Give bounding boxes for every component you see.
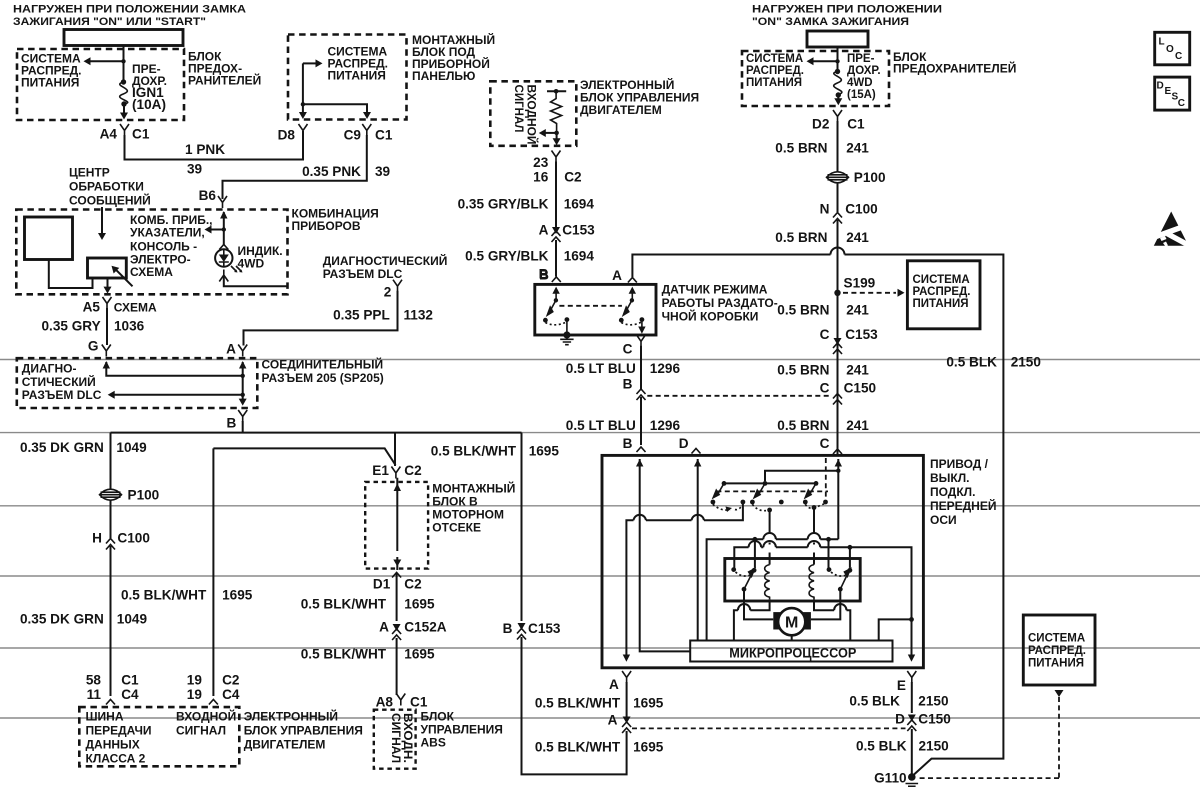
svg-text:C1: C1 (132, 127, 150, 142)
fuse 4WD 15A (835, 69, 840, 74)
svg-text:B: B (539, 268, 549, 283)
selector blade 1 (718, 483, 725, 494)
diagonal arrow into scheme rect (116, 270, 133, 287)
connector A (SP205) (238, 345, 247, 357)
svg-text:ПИТАНИЯ: ПИТАНИЯ (746, 77, 802, 89)
svg-text:P100: P100 (128, 488, 160, 503)
svg-text:C4: C4 (222, 687, 240, 702)
svg-text:СОЕДИНИТЕЛЬНЫЙ: СОЕДИНИТЕЛЬНЫЙ (262, 357, 384, 372)
wire 0.5 BRN 241 down to S199 (837, 220, 839, 455)
svg-text:16: 16 (533, 170, 549, 185)
connector A8 C1 (396, 694, 405, 706)
svg-text:B: B (503, 621, 513, 636)
svg-text:C: C (820, 327, 830, 342)
svg-text:ДВИГАТЕЛЕМ: ДВИГАТЕЛЕМ (580, 103, 662, 117)
svg-text:ПРИБОРОВ: ПРИБОРОВ (292, 219, 361, 233)
pin D of actuator (692, 449, 701, 454)
wire to pin C with arrow (641, 320, 643, 327)
wire display to scheme block (49, 260, 93, 289)
connector A C152A (393, 624, 401, 631)
svg-text:C4: C4 (121, 687, 139, 702)
svg-text:МОТОРНОМ: МОТОРНОМ (432, 508, 504, 522)
wire 0.5 BLK/WHT 1695 to ground loop (522, 637, 627, 774)
svg-text:"ON" ЗАМКА ЗАЖИГАНИЯ: "ON" ЗАМКА ЗАЖИГАНИЯ (752, 16, 909, 28)
selector blade 3 (810, 483, 817, 494)
svg-text:2150: 2150 (919, 739, 949, 754)
connector D1 C2 (392, 573, 401, 578)
svg-text:B6: B6 (199, 188, 217, 203)
svg-text:0.5 BLK/WHT: 0.5 BLK/WHT (121, 588, 207, 603)
connector A (in-line) (623, 717, 631, 724)
svg-text:0.35 PPL: 0.35 PPL (333, 308, 390, 323)
svg-text:D2: D2 (812, 117, 830, 132)
svg-text:A8: A8 (376, 695, 394, 710)
right coil (809, 565, 814, 600)
svg-text:0.5 BRN: 0.5 BRN (777, 303, 829, 318)
svg-text:E: E (1165, 86, 1172, 97)
svg-text:0.5 BLK/WHT: 0.5 BLK/WHT (535, 696, 621, 711)
svg-text:ABS: ABS (421, 736, 446, 750)
svg-text:C153: C153 (528, 621, 561, 636)
svg-text:1 PNK: 1 PNK (185, 142, 225, 157)
svg-text:ДИАГНО-: ДИАГНО- (22, 362, 77, 376)
svg-text:G110: G110 (874, 771, 907, 786)
junction node (121, 59, 125, 63)
connector B C150 (637, 389, 646, 400)
svg-text:ПИТАНИЯ: ПИТАНИЯ (913, 298, 969, 310)
front axle actuator box (602, 455, 923, 667)
svg-text:C150: C150 (918, 712, 951, 727)
relay left switch (731, 567, 736, 572)
svg-text:B: B (226, 416, 236, 431)
svg-text:МОНТАЖНЫЙ: МОНТАЖНЫЙ (432, 481, 515, 496)
svg-text:D: D (895, 712, 905, 727)
svg-text:1296: 1296 (650, 361, 681, 376)
taps from line1 to relay contacts (755, 539, 829, 568)
svg-text:A: A (226, 342, 236, 357)
wire G into DLC (103, 361, 110, 369)
svg-text:РАБОТЫ РАЗДАТО-: РАБОТЫ РАЗДАТО- (662, 296, 778, 310)
svg-text:1694: 1694 (564, 197, 595, 212)
LOC reference box (1155, 32, 1190, 65)
svg-text:ВХОДН.: ВХОДН. (401, 713, 413, 763)
svg-text:11: 11 (87, 687, 102, 702)
svg-text:ДВИГАТЕЛЕМ: ДВИГАТЕЛЕМ (244, 738, 326, 752)
arrow from message center into cluster (101, 207, 103, 233)
svg-text:СИСТЕМА: СИСТЕМА (746, 53, 803, 65)
svg-text:1049: 1049 (117, 612, 148, 627)
wire 0.5 BLK/WHT 1695 (396, 638, 398, 695)
display rectangle (25, 217, 73, 260)
svg-text:0.5 BLK: 0.5 BLK (849, 694, 900, 709)
arrow to gauges (210, 229, 224, 231)
wire A4 to D8, 1 PNK 39 (125, 131, 304, 160)
wire B6 into cluster (220, 211, 227, 219)
svg-text:ВЫКЛ.: ВЫКЛ. (930, 471, 970, 485)
pin B entry arrow (555, 292, 557, 300)
selector common wire C to pivot 2 (765, 471, 838, 481)
svg-text:A: A (539, 223, 549, 238)
svg-text:58: 58 (86, 673, 102, 688)
svg-text:1296: 1296 (650, 418, 681, 433)
svg-text:C: C (820, 436, 830, 451)
power distribution system box (right) (907, 261, 980, 329)
microprocessor box (690, 641, 892, 662)
svg-text:НАГРУЖЕН ПРИ ПОЛОЖЕНИИ ЗАМКА: НАГРУЖЕН ПРИ ПОЛОЖЕНИИ ЗАМКА (13, 4, 246, 16)
DESC reference box (1155, 77, 1190, 110)
connector E1 C2 (391, 467, 400, 479)
svg-text:РАЗЪЕМ 205 (SP205): РАЗЪЕМ 205 (SP205) (262, 371, 384, 385)
contact arcs dotted (713, 504, 730, 510)
svg-text:C: C (1175, 51, 1182, 62)
wire LED to cluster edge (224, 277, 288, 287)
svg-text:1695: 1695 (404, 647, 435, 662)
svg-text:ДАТЧИК РЕЖИМА: ДАТЧИК РЕЖИМА (662, 283, 768, 297)
line1: C to microprocessor (707, 539, 839, 640)
svg-text:C: C (1178, 98, 1185, 109)
svg-text:C2: C2 (404, 577, 422, 592)
wire 0.5 BLK/WHT 1695 (396, 573, 398, 621)
svg-text:КЛАССА 2: КЛАССА 2 (86, 752, 146, 766)
svg-text:0.5 BRN: 0.5 BRN (777, 363, 829, 378)
svg-text:ВХОДНОЙ: ВХОДНОЙ (176, 709, 236, 724)
connector pin 2 (393, 280, 402, 292)
wire from arc3 mid down to right coil (812, 505, 817, 510)
svg-text:ПРЕ-: ПРЕ- (847, 53, 875, 65)
svg-text:241: 241 (846, 363, 869, 378)
svg-text:D: D (1157, 81, 1164, 92)
svg-text:0.5 BLK/WHT: 0.5 BLK/WHT (431, 443, 517, 458)
svg-text:C1: C1 (847, 117, 865, 132)
svg-text:ШИНА: ШИНА (86, 710, 124, 724)
svg-text:0.5 GRY/BLK: 0.5 GRY/BLK (465, 248, 549, 263)
svg-text:B: B (623, 436, 633, 451)
svg-text:ЭЛЕКТРОННЫЙ: ЭЛЕКТРОННЫЙ (244, 709, 338, 724)
fuse IGN1 10A (121, 79, 126, 84)
svg-text:ЗАЖИГАНИЯ "ON" ИЛИ "START": ЗАЖИГАНИЯ "ON" ИЛИ "START" (13, 16, 206, 28)
svg-text:G: G (88, 339, 99, 354)
svg-text:P100: P100 (854, 170, 886, 185)
svg-text:ПРИВОД /: ПРИВОД / (930, 457, 989, 471)
svg-text:1036: 1036 (114, 319, 145, 334)
svg-text:1695: 1695 (633, 696, 664, 711)
wire 0.5 LT BLU 1296 (lower) (640, 397, 642, 445)
svg-text:O: O (1166, 44, 1174, 55)
svg-text:РАЗЪЕМ DLC: РАЗЪЕМ DLC (323, 267, 403, 281)
connector E (below actuator) (907, 671, 916, 683)
pin B of transfer case switch (552, 277, 561, 282)
svg-text:РАСПРЕД.: РАСПРЕД. (913, 286, 971, 298)
svg-text:0.5 BRN: 0.5 BRN (775, 230, 827, 245)
svg-text:СХЕМА: СХЕМА (130, 265, 173, 279)
svg-text:C: C (623, 342, 633, 357)
grid rules (0, 360, 1200, 719)
wire 0.35 GRY/BLK 1694 (555, 162, 557, 229)
svg-text:241: 241 (846, 418, 869, 433)
dashed ground reference to G110 (1055, 690, 1064, 697)
LED arrows (231, 266, 241, 271)
svg-text:A: A (609, 677, 619, 692)
svg-text:C153: C153 (562, 223, 595, 238)
underdash junction block dashed box (288, 35, 407, 120)
svg-text:0.5 BRN: 0.5 BRN (777, 418, 829, 433)
svg-text:C2: C2 (404, 463, 422, 478)
svg-text:1132: 1132 (404, 308, 434, 323)
switch blade B (554, 298, 558, 302)
arrow to DLC (113, 394, 243, 396)
4WD indicator LED (219, 245, 228, 250)
relay blades to motor brushes (744, 589, 773, 619)
svg-text:241: 241 (846, 230, 869, 245)
wire 0.35 PPL 1132 (244, 291, 398, 346)
arrow to power distribution (right) (812, 60, 838, 62)
wire C1 to B6, 0.35 PNK 39 (223, 135, 367, 199)
pin B wire inside to microprocessor (640, 459, 691, 651)
svg-text:0.5 BLK: 0.5 BLK (856, 739, 907, 754)
selector pivot rail (pivot1 - pivot3) (724, 482, 816, 484)
svg-text:A4: A4 (100, 127, 118, 142)
dashed vertical from box top to right contact (825, 458, 827, 499)
svg-text:ДИАГНОСТИЧЕСКИЙ: ДИАГНОСТИЧЕСКИЙ (323, 253, 448, 268)
svg-text:C152A: C152A (404, 620, 446, 635)
svg-text:C100: C100 (117, 531, 149, 546)
svg-text:4WD: 4WD (847, 77, 873, 89)
wire 0.5 BLK 2150 to G110 (911, 729, 913, 775)
svg-text:241: 241 (846, 141, 869, 156)
dashed link to C150 (632, 727, 906, 729)
wire B to bus, y=432.6 (111, 421, 522, 433)
svg-text:19: 19 (187, 687, 203, 702)
wire 0.5 BRN 241 to P100 (837, 121, 839, 172)
svg-text:УКАЗАТЕЛИ,: УКАЗАТЕЛИ, (130, 226, 205, 240)
svg-text:0.5 BLK: 0.5 BLK (946, 355, 997, 370)
svg-text:23: 23 (533, 155, 549, 170)
engine ECM dashed box (top) (490, 81, 576, 146)
svg-text:0.5 LT BLU: 0.5 LT BLU (566, 361, 636, 376)
connector A4 C1 (120, 124, 129, 136)
svg-text:19: 19 (187, 673, 203, 688)
svg-text:C100: C100 (845, 202, 878, 217)
label: input signal (rotated) (512, 85, 540, 145)
wire A through DLC box (239, 361, 246, 369)
svg-text:(10А): (10А) (132, 97, 166, 112)
svg-text:СООБЩЕНИЙ: СООБЩЕНИЙ (69, 193, 151, 208)
svg-text:E: E (897, 678, 906, 693)
wire from arc2 mid down to left coil (767, 508, 772, 513)
svg-text:СИГНАЛ: СИГНАЛ (389, 713, 401, 763)
svg-text:1695: 1695 (633, 740, 664, 755)
transfer case mode sensor box (535, 284, 656, 335)
connector C (637, 335, 646, 347)
svg-text:ОСИ: ОСИ (930, 513, 957, 527)
wire 0.5 BLK/WHT 1695 (626, 682, 628, 717)
svg-text:C2: C2 (222, 673, 240, 688)
svg-text:(15А): (15А) (847, 89, 876, 101)
svg-text:C1: C1 (410, 695, 428, 710)
wire 0.35 DK GRN 1049 (lower) (110, 546, 112, 696)
svg-text:39: 39 (375, 164, 391, 179)
wire E1 through junction block (394, 484, 401, 492)
svg-text:2150: 2150 (918, 694, 948, 709)
svg-text:2150: 2150 (1011, 355, 1041, 370)
svg-text:БЛОК УПРАВЛЕНИЯ: БЛОК УПРАВЛЕНИЯ (244, 724, 363, 738)
connector D C150 (908, 715, 916, 722)
switch coupling dashed (559, 305, 622, 307)
svg-text:A: A (608, 713, 618, 728)
svg-text:0.5 BLK/WHT: 0.5 BLK/WHT (535, 740, 621, 755)
pin A entry arrow (631, 292, 633, 300)
svg-text:НАГРУЖЕН ПРИ ПОЛОЖЕНИИ: НАГРУЖЕН ПРИ ПОЛОЖЕНИИ (752, 4, 942, 16)
svg-text:ПИТАНИЯ: ПИТАНИЯ (1028, 658, 1084, 670)
wire 0.5 BLK/WHT 1695 (x=213) (212, 448, 214, 696)
svg-text:ДОХР.: ДОХР. (847, 65, 881, 77)
svg-text:ПЕРЕДАЧИ: ПЕРЕДАЧИ (86, 724, 152, 738)
relay box (725, 559, 860, 602)
wire inside junction block (302, 63, 304, 113)
dashed link C150 (647, 395, 831, 397)
contacts of switch A (619, 318, 624, 323)
connector pins 23/16 C2 (552, 151, 561, 163)
svg-text:0.5 LT BLU: 0.5 LT BLU (566, 418, 636, 433)
underhood junction block dashed box (365, 482, 428, 569)
svg-text:C153: C153 (845, 327, 878, 342)
svg-text:E1: E1 (372, 463, 389, 478)
wire contact2 down-left to pin A column (626, 502, 743, 655)
svg-text:A: A (612, 268, 622, 283)
wire 0.35 DK GRN 1049 (upper) (110, 433, 112, 489)
DLC dashed box (17, 358, 257, 408)
svg-text:ПИТАНИЯ: ПИТАНИЯ (21, 76, 79, 90)
svg-text:0.5 BLK/WHT: 0.5 BLK/WHT (301, 647, 387, 662)
svg-text:C1: C1 (375, 128, 393, 143)
svg-text:РАСПРЕД.: РАСПРЕД. (1028, 645, 1086, 657)
svg-text:ЦЕНТР: ЦЕНТР (69, 166, 110, 180)
svg-text:C: C (820, 381, 830, 396)
svg-text:ЧНОЙ КОРОБКИ: ЧНОЙ КОРОБКИ (662, 309, 759, 324)
svg-text:БЛОК В: БЛОК В (432, 495, 478, 509)
svg-text:0.5 BRN: 0.5 BRN (775, 141, 827, 156)
wire from bus bar to fuse 4WD (837, 47, 839, 71)
wire 0.5 BLK/WHT 1695 (x=521) (521, 433, 523, 621)
svg-text:1049: 1049 (116, 440, 147, 455)
scheme rectangle (88, 258, 127, 278)
left coil (765, 565, 770, 600)
svg-text:СТИЧЕСКИЙ: СТИЧЕСКИЙ (22, 374, 96, 389)
svg-text:0.35 DK GRN: 0.35 DK GRN (20, 440, 104, 455)
connector A5 (103, 297, 112, 309)
wire 0.5 LT BLU 1296 (upper) (640, 346, 642, 389)
svg-text:ОБРАБОТКИ: ОБРАБОТКИ (69, 180, 144, 194)
switch blade A (630, 298, 634, 302)
svg-text:РАЗЪЕМ DLC: РАЗЪЕМ DLC (22, 388, 102, 402)
contacts of switch B (543, 318, 548, 323)
svg-text:ПИТАНИЯ: ПИТАНИЯ (328, 69, 386, 83)
connector C9 / C1 (362, 124, 371, 136)
connector B (below DLC) (238, 410, 247, 422)
svg-text:241: 241 (846, 303, 869, 318)
svg-text:СИСТЕМА: СИСТЕМА (913, 274, 970, 286)
wire 0.5 GRY/BLK 1694 (555, 240, 557, 277)
svg-text:ДАННЫХ: ДАННЫХ (86, 738, 140, 752)
connector D2 C1 (833, 110, 842, 122)
svg-text:0.35 GRY: 0.35 GRY (42, 319, 101, 334)
fuse block dashed box (left) (17, 49, 184, 120)
wire 0.35 GRY 1036 (106, 308, 108, 345)
arrow to power distribution (303, 62, 317, 64)
svg-text:S199: S199 (844, 276, 876, 291)
connector B6 (218, 196, 227, 208)
svg-text:РАСПРЕД.: РАСПРЕД. (746, 65, 804, 77)
ground G110 (908, 773, 916, 781)
svg-text:ПАНЕЛЬЮ: ПАНЕЛЬЮ (412, 69, 475, 83)
svg-text:C2: C2 (564, 170, 582, 185)
connector G (102, 345, 111, 357)
wire A pin of sensor up and over to ground wire 2150 (632, 255, 1003, 777)
svg-text:СИСТЕМА: СИСТЕМА (1028, 633, 1085, 645)
wire 0.5 BLK 2150 (911, 682, 913, 713)
pin C wire inside (837, 459, 839, 539)
ignition bus bar (right) (807, 31, 868, 47)
ground inside sensor (566, 320, 568, 333)
svg-text:2: 2 (384, 285, 392, 300)
connector C C150 (833, 394, 842, 405)
svg-text:L: L (1159, 37, 1165, 48)
svg-text:РАНИТЕЛЕЙ: РАНИТЕЛЕЙ (188, 73, 261, 88)
svg-text:1695: 1695 (529, 443, 560, 458)
svg-text:0.35 GRY/BLK: 0.35 GRY/BLK (458, 197, 549, 212)
resistor in ECM (547, 90, 566, 92)
svg-text:N: N (820, 202, 830, 217)
dashed arrow S199 to power distribution (843, 292, 896, 294)
connector C C153 (834, 338, 842, 345)
line2: relay common to pin E (734, 547, 911, 655)
svg-text:1695: 1695 (404, 597, 435, 612)
svg-text:C9: C9 (344, 128, 362, 143)
svg-text:СИГНАЛ: СИГНАЛ (176, 724, 226, 738)
arrow to input signal (545, 132, 557, 134)
svg-text:D8: D8 (278, 128, 296, 143)
svg-text:1694: 1694 (564, 248, 595, 263)
pass-through grommet P100 (827, 172, 849, 183)
svg-text:СИГНАЛ: СИГНАЛ (512, 85, 526, 133)
svg-text:0.5 BLK/WHT: 0.5 BLK/WHT (301, 597, 387, 612)
microprocessor link right (879, 619, 912, 640)
svg-text:1695: 1695 (222, 588, 253, 603)
selector coupling dashed (716, 490, 828, 492)
svg-text:ПЕРЕДНЕЙ: ПЕРЕДНЕЙ (930, 498, 996, 513)
svg-text:УПРАВЛЕНИЯ: УПРАВЛЕНИЯ (421, 723, 503, 737)
svg-text:A5: A5 (83, 300, 101, 315)
svg-text:БЛОК: БЛОК (421, 710, 455, 724)
motor M (773, 612, 782, 629)
selector blade 2 (759, 483, 766, 494)
svg-text:КОНСОЛЬ -: КОНСОЛЬ - (130, 240, 197, 254)
svg-text:ПОДКЛ.: ПОДКЛ. (930, 485, 975, 499)
class 2 data bus dashed box (79, 707, 239, 766)
svg-text:МИКРОПРОЦЕССОР: МИКРОПРОЦЕССОР (729, 646, 856, 661)
selector contact row (711, 500, 716, 505)
svg-text:0.35 PNK: 0.35 PNK (302, 164, 361, 179)
wire to E1 (from bus and from x=213 corner) (213, 433, 395, 466)
svg-text:M: M (785, 615, 798, 632)
ignition switch bus bar (64, 30, 183, 46)
wire from bus bar into fuse (123, 46, 125, 83)
wire scheme to A5 (107, 278, 109, 288)
ABS input signal dashed box (374, 710, 416, 769)
svg-text:ОТСЕКЕ: ОТСЕКЕ (432, 521, 481, 535)
connector A C153 (552, 227, 560, 234)
connector H C100 (110, 500, 112, 538)
